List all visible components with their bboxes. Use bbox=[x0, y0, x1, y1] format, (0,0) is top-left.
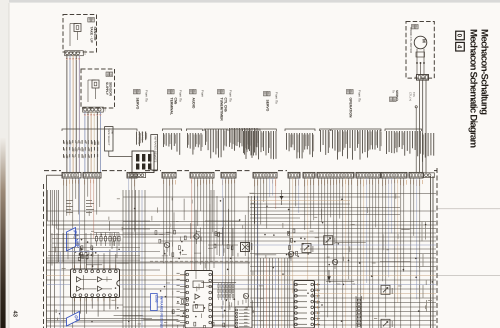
switch box S4 bbox=[381, 319, 393, 328]
svg-text:TAKE - UP: TAKE - UP bbox=[90, 27, 94, 44]
svg-text:From /To: From /To bbox=[358, 90, 362, 102]
wires from IC201 pins bbox=[75, 245, 116, 316]
svg-text:SERVO: SERVO bbox=[266, 100, 270, 112]
left region extra horizontal wires bbox=[47, 233, 165, 266]
bracket groups over connectors bbox=[62, 129, 422, 131]
micro label stack IC201 area left bbox=[66, 200, 94, 213]
svg-text:CTL (+): CTL (+) bbox=[409, 92, 412, 101]
title: Mechacon Schematic Diagram bbox=[468, 29, 479, 148]
wires from motor to schematic bbox=[420, 80, 427, 172]
svg-text:Mechacon-Schaltung: Mechacon-Schaltung bbox=[479, 29, 490, 115]
svg-text:TERMINAL: TERMINAL bbox=[170, 98, 174, 116]
micro value labels sprinkled bbox=[55, 193, 432, 325]
svg-text:0: 0 bbox=[456, 34, 463, 38]
motor internal parts bbox=[416, 49, 425, 75]
discrete cluster below C205 labels (162-250, 295-328) bbox=[165, 296, 243, 328]
long verticals near right border bbox=[431, 176, 434, 328]
symbol box 4 bbox=[456, 42, 465, 51]
svg-text:SERVO: SERVO bbox=[395, 90, 399, 101]
label from audio bbox=[190, 90, 205, 109]
transistor Q2 bbox=[164, 242, 169, 252]
label from/to tuner/timer bbox=[218, 90, 233, 122]
right margin grey labels inside border bbox=[419, 222, 427, 313]
blue vertical label C205 bbox=[151, 294, 159, 311]
svg-text:SENSOR: SENSOR bbox=[109, 82, 113, 97]
vertical wires descending from strips bbox=[64, 178, 420, 328]
svg-text:CN2: CN2 bbox=[104, 107, 107, 112]
pin name micro label columns bbox=[63, 128, 434, 162]
svg-text:TUNER/TIMER: TUNER/TIMER bbox=[220, 98, 224, 122]
svg-text:From /To: From /To bbox=[145, 90, 149, 102]
supply sensor dashed box bbox=[81, 69, 115, 108]
connector below take-up sensor bbox=[65, 51, 87, 56]
horizontal buses lower field bbox=[46, 233, 436, 325]
switch box S2 bbox=[324, 236, 336, 245]
svg-text:MODE CTL MOTOR: MODE CTL MOTOR bbox=[409, 28, 413, 53]
corner-turn wires top-left of block bbox=[48, 190, 161, 229]
diode D around (281,196) bbox=[280, 190, 284, 205]
wire from CN strip left into block bbox=[47, 175, 63, 328]
svg-text:M: M bbox=[422, 39, 427, 43]
discrete cluster mid top (150-235, 228-262) bbox=[155, 230, 233, 259]
label ctl pulse column bbox=[137, 132, 147, 145]
connector below supply sensor bbox=[83, 107, 107, 112]
svg-text:OP: OP bbox=[74, 315, 80, 322]
IC202 pin labels bbox=[177, 273, 180, 322]
label from/to servo (left) bbox=[134, 90, 149, 110]
svg-text:CN5: CN5 bbox=[174, 98, 178, 105]
motor M903 bbox=[414, 36, 427, 49]
svg-text:SENSOR: SENSOR bbox=[93, 27, 97, 42]
crystal X201 bbox=[241, 243, 253, 252]
svg-text:Mechacon Schematic Diagram: Mechacon Schematic Diagram bbox=[468, 29, 479, 148]
switch box S3 bbox=[381, 285, 393, 294]
center-zone connecting verticals bbox=[174, 198, 245, 279]
long verticals bus 248-290 bbox=[248, 196, 288, 328]
symbol box 0 bbox=[456, 31, 465, 40]
wire ctl tp5 bbox=[415, 106, 417, 173]
label from/to operation bbox=[347, 90, 362, 118]
transistor Q3 bbox=[288, 251, 293, 261]
svg-text:INFRARED RECEIVER: INFRARED RECEIVER bbox=[160, 296, 164, 328]
vertical mini bundle x211 bbox=[205, 190, 240, 268]
tape select switch block bbox=[109, 151, 154, 173]
svg-text:AUDIO: AUDIO bbox=[192, 98, 196, 109]
transistor Q4 bbox=[243, 293, 248, 303]
svg-text:SW: SW bbox=[110, 130, 113, 135]
blue vertical label infrared receiver bbox=[160, 296, 164, 328]
IC203 vertical block with pin labels bbox=[294, 281, 320, 328]
label to servo bbox=[390, 90, 400, 101]
horizontal wires left area lower bbox=[46, 263, 250, 326]
svg-text:TAPE SELECT: TAPE SELECT bbox=[107, 128, 110, 146]
tape select sw label box bbox=[105, 127, 114, 151]
main block dashed border bbox=[44, 168, 438, 328]
svg-text:INFRARED REMOTE: INFRARED REMOTE bbox=[153, 136, 156, 162]
dashed section divider above IC202 bbox=[150, 260, 250, 262]
discrete cluster right mid (285-310, 228-260) bbox=[286, 229, 304, 258]
title: Mechacon-Schaltung bbox=[479, 29, 490, 115]
page number 43 bbox=[11, 311, 18, 318]
page left margin bbox=[0, 0, 9, 328]
label ctl tp5 bbox=[409, 92, 416, 101]
long verticals center-left (123-147) bbox=[123, 190, 145, 328]
wire bundle from supply sensor bbox=[84, 112, 101, 173]
label from/to servo (mid) bbox=[264, 92, 279, 112]
wire bundle from take-up sensor bbox=[66, 55, 80, 172]
svg-text:OPERATION: OPERATION bbox=[349, 98, 353, 118]
discrete cluster left of resistor array bbox=[79, 239, 97, 261]
svg-text:CN1: CN1 bbox=[84, 51, 87, 56]
svg-text:SERVO: SERVO bbox=[136, 98, 140, 110]
svg-text:SUPPLY: SUPPLY bbox=[105, 82, 109, 96]
take-up sensor dashed box bbox=[63, 15, 97, 53]
blue wire into PG AMP bbox=[60, 178, 140, 328]
infrared remote label box bbox=[151, 135, 158, 170]
svg-text:To: To bbox=[392, 90, 396, 93]
IC201 pin numbers bbox=[74, 265, 116, 301]
fold crease lines right margin bbox=[437, 209, 500, 276]
IC201 quad op-amp block bbox=[71, 269, 120, 298]
PG AMP blue label bbox=[67, 228, 81, 251]
svg-text:TP5: TP5 bbox=[412, 92, 415, 97]
connector strip row y=170 bbox=[62, 172, 434, 178]
svg-text:From: From bbox=[201, 90, 205, 98]
junction dots scattered bbox=[59, 199, 433, 323]
transistor Q5 bbox=[332, 259, 337, 269]
resistor array above IC201 bbox=[94, 233, 120, 247]
resistor ladder right-bottom bbox=[356, 296, 362, 328]
page top grey strip bbox=[0, 0, 500, 3]
svg-text:From /To: From /To bbox=[179, 90, 183, 102]
resistor columns right of IC202 bbox=[218, 283, 234, 300]
svg-text:CTL CN5: CTL CN5 bbox=[224, 98, 228, 112]
svg-text:C205: C205 bbox=[154, 295, 158, 303]
IC202 vertical block bbox=[180, 271, 213, 328]
diagonal/odd wires connecting buses bbox=[83, 209, 410, 320]
key matrix connector block bottom center bbox=[235, 307, 252, 328]
transistor Q1 bbox=[194, 230, 199, 244]
red pin numbers under connectors bbox=[63, 180, 423, 186]
black arrow diode near IC203 bbox=[327, 270, 331, 281]
svg-text:From /To: From /To bbox=[229, 90, 233, 102]
horizontal buses upper field bbox=[46, 194, 436, 229]
switch box S1 bbox=[302, 244, 313, 253]
svg-text:From /To: From /To bbox=[275, 92, 279, 104]
svg-text:4: 4 bbox=[456, 45, 463, 49]
OP AMP blue label lower bbox=[67, 312, 80, 327]
motor connector bbox=[414, 75, 429, 81]
mode ctl motor dashed box bbox=[406, 22, 434, 79]
IC203 left pins and tan marks bbox=[295, 283, 318, 326]
label from/to terminal cn5 bbox=[168, 90, 183, 116]
svg-text:43: 43 bbox=[11, 311, 18, 318]
left vertical bus wires bbox=[51, 190, 59, 328]
